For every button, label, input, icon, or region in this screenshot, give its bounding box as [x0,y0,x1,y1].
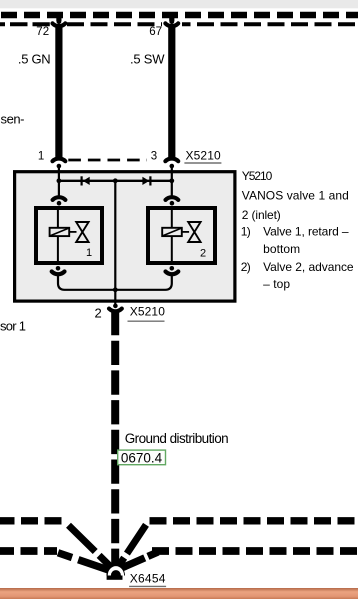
underline X5210 (bottom) [128,320,165,322]
svg-text:2: 2 [200,247,206,259]
lower bus A right diagonal ray [116,525,146,570]
valve 1 wire lower [57,236,59,265]
underline X5210 (top) [184,162,221,164]
lower bus B left segment [0,547,57,555]
svg-text:Valve 2, advance: Valve 2, advance [263,260,354,274]
svg-text:0670.4: 0670.4 [121,450,163,465]
diode D2 bar [149,176,151,185]
pin 67 socket cup [165,23,178,26]
valve symbol 2 (bowtie) [188,222,200,242]
valve 1 top wire [58,181,60,196]
svg-text:X5210: X5210 [186,148,222,162]
pin 67 tap stem [169,14,174,21]
svg-text:X6454: X6454 [130,572,166,586]
valve 2 wire upper [171,206,173,228]
center wire down [114,181,116,290]
ground point X6454 dome [106,565,125,576]
svg-text:1: 1 [38,151,44,163]
bottom collector rail wire [58,273,172,290]
svg-text:Y5210: Y5210 [242,169,273,183]
lower bus B right diagonal ray [117,552,158,570]
svg-text:72: 72 [36,26,49,38]
svg-text:2): 2) [241,260,251,274]
wire pin3 into box [171,167,173,181]
svg-text:sen-: sen- [1,111,25,126]
lower bus B left diagonal ray [58,553,115,572]
ground point X6454 white arch [108,566,124,575]
valve 2 top wire [171,181,173,196]
valve 2 top connector ball [170,201,175,206]
bus line 2 (lower dashed rail, segment left) [0,22,50,26]
pin 72 socket cup [53,23,66,26]
valve 1 bottom connector chevron [52,272,65,275]
svg-text:.5 SW: .5 SW [130,51,165,66]
valve 2 bottom ball [170,266,175,271]
ground wire dashed vertical [111,311,119,570]
bottom salmon bar [0,588,358,599]
junction node center [113,178,118,183]
svg-text:X5210: X5210 [130,305,166,319]
svg-text:sor 1: sor 1 [0,318,26,333]
junction node right [169,178,174,183]
underline X6454 [129,585,166,587]
svg-text:67: 67 [149,26,162,38]
solenoid coil 2 [162,228,182,236]
svg-text:Valve 1, retard –: Valve 1, retard – [263,224,349,238]
wire pin1 into box [58,167,60,181]
bus line 2 (segment middle) [67,22,162,26]
pin 72 pin ball [57,19,62,24]
svg-text:1): 1) [241,224,251,238]
lower bus A left segment [0,517,63,524]
wire .5 GN vertical [55,27,62,159]
svg-text:– top: – top [263,277,290,291]
connector X5210 pin 3 cup (flare, opening down) [165,158,178,161]
valve symbol 1 (bowtie) [76,222,88,242]
connector X5210 pin 3 ball [170,164,175,169]
junction node left [57,178,62,183]
hyperlink box 0670.4 [118,450,166,465]
svg-text:1: 1 [86,247,92,259]
pin 2 wire out of box [114,290,116,304]
internal rail wire [59,180,172,182]
connector X5210 pin 2 ball [113,304,118,309]
pin 72 tap stem [56,14,61,21]
connector X5210 pin 1 cup (flare, opening down) [53,158,66,161]
bus line 1 (upper dashed power rail) [0,12,358,18]
valve 1 box [36,208,102,263]
valve 2 box [148,208,215,263]
valve 2 wire lower [171,236,173,265]
diode D2 (pointing right) [142,177,149,185]
svg-text:VANOS valve 1 and: VANOS valve 1 and [242,188,349,202]
connector X5210 dashed link line [68,159,147,162]
ground point X6454 base bar [107,576,123,580]
svg-text:2 (inlet): 2 (inlet) [242,208,281,222]
wire .5 SW vertical [168,27,175,159]
coil 2 diagonal [163,228,182,236]
connector X5210 pin 2 cup (opening up) [109,309,122,312]
svg-text:3: 3 [151,151,157,163]
lower bus B right segment [151,547,358,555]
lower bus A right segment [150,517,358,524]
valve 1 wire upper [57,206,59,228]
pin 67 pin ball [169,19,174,24]
valve 1 bottom ball [56,266,61,271]
svg-text:Ground distribution: Ground distribution [125,431,229,446]
svg-text:2: 2 [95,305,102,320]
lower bus A left diagonal ray [69,525,116,571]
junction node bottom [113,287,118,292]
diode D1 (pointing left) [83,177,90,185]
coil 1 diagonal [50,228,69,236]
connector X5210 pin 1 ball [57,164,62,169]
svg-text:.5 GN: .5 GN [18,51,51,66]
valve 2 bottom connector chevron [166,272,179,275]
top gray strip [0,0,358,8]
valve 2 top connector chevron [166,197,179,200]
solenoid coil 1 [50,228,70,236]
valve 1 top connector ball [57,201,62,206]
component box Y5210 (VANOS valves) [15,172,235,301]
valve 1 top connector chevron [53,197,66,200]
diode D1 bar [81,176,83,185]
coil 2 link line [182,231,189,233]
coil 1 link line [69,231,76,233]
bus line 2 (segment right) [182,22,358,26]
svg-text:bottom: bottom [263,242,300,256]
